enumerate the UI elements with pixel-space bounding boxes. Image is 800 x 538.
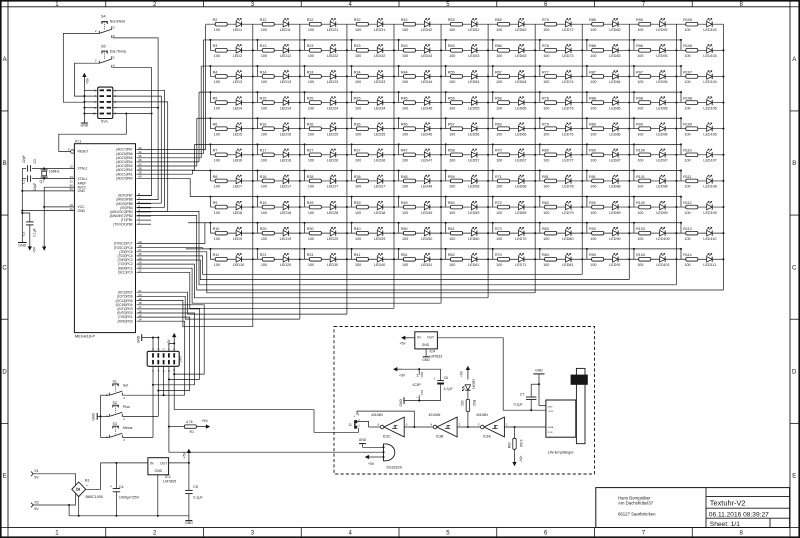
supply +5V down arrow C2 bbox=[29, 225, 31, 248]
svg-text:LED3: LED3 bbox=[233, 80, 242, 84]
resistor R31 bbox=[309, 257, 321, 261]
resistor R57 bbox=[451, 127, 463, 131]
svg-text:R54: R54 bbox=[448, 44, 455, 48]
resistor R103 bbox=[639, 231, 651, 235]
wire LED column 11 bbox=[722, 24, 724, 290]
svg-text:LED21: LED21 bbox=[327, 28, 338, 32]
svg-text:LED39: LED39 bbox=[374, 237, 385, 241]
LED LED105 bbox=[707, 100, 713, 105]
LED LED61 bbox=[471, 257, 477, 262]
svg-text:LED96: LED96 bbox=[656, 132, 667, 136]
svg-text:R37: R37 bbox=[354, 149, 361, 153]
svg-text:R93: R93 bbox=[589, 227, 596, 231]
svg-text:Am Dachshübel37: Am Dachshübel37 bbox=[618, 500, 654, 505]
wire LED column 2 bbox=[299, 24, 301, 319]
svg-text:+: + bbox=[110, 484, 112, 488]
LED LED25 bbox=[330, 126, 336, 131]
wire LED41 to R52 bbox=[467, 390, 469, 399]
svg-text:LED84: LED84 bbox=[609, 80, 620, 84]
svg-text:R17: R17 bbox=[260, 149, 267, 153]
svg-text:100: 100 bbox=[449, 106, 455, 110]
resistor R80 bbox=[545, 153, 557, 157]
svg-text:R14: R14 bbox=[260, 70, 267, 74]
resistor R24 bbox=[309, 75, 321, 79]
svg-text:LED99: LED99 bbox=[656, 211, 667, 215]
svg-text:100: 100 bbox=[496, 54, 502, 58]
resistor R14 bbox=[262, 75, 274, 79]
svg-text:100: 100 bbox=[543, 54, 549, 58]
resistor R16 bbox=[262, 127, 274, 131]
svg-text:LED62: LED62 bbox=[515, 28, 526, 32]
wire bridge + out bbox=[86, 463, 148, 489]
svg-text:100: 100 bbox=[590, 132, 596, 136]
svg-text:LED75: LED75 bbox=[562, 106, 573, 110]
svg-text:LED26: LED26 bbox=[327, 159, 338, 163]
svg-text:Sheet: 1/1: Sheet: 1/1 bbox=[710, 521, 740, 528]
resistor R61 bbox=[451, 231, 463, 235]
svg-text:100: 100 bbox=[496, 132, 502, 136]
svg-text:IN: IN bbox=[150, 461, 154, 465]
svg-text:(SCL)PC0: (SCL)PC0 bbox=[118, 270, 133, 274]
svg-text:R101: R101 bbox=[636, 175, 645, 179]
wire row 6 line bbox=[210, 154, 723, 156]
LED LED71 bbox=[518, 257, 524, 262]
svg-text:LED42: LED42 bbox=[421, 28, 432, 32]
wire IC4 out bbox=[437, 338, 546, 410]
svg-text:+5V: +5V bbox=[460, 370, 464, 377]
resistor R111 bbox=[686, 179, 698, 183]
resistor R81 bbox=[545, 179, 557, 183]
svg-text:100: 100 bbox=[402, 211, 408, 215]
LED LED103 bbox=[707, 48, 713, 53]
svg-text:LED83: LED83 bbox=[609, 54, 620, 58]
svg-text:R61: R61 bbox=[448, 227, 455, 231]
svg-text:100: 100 bbox=[590, 28, 596, 32]
svg-text:4.7k: 4.7k bbox=[186, 420, 193, 424]
resistor R91 bbox=[592, 179, 604, 183]
svg-text:100: 100 bbox=[637, 106, 643, 110]
LED LED65 bbox=[518, 100, 524, 105]
svg-text:100: 100 bbox=[261, 159, 267, 163]
svg-text:LED44: LED44 bbox=[421, 80, 432, 84]
svg-text:100: 100 bbox=[496, 159, 502, 163]
svg-text:LED2: LED2 bbox=[233, 54, 242, 58]
svg-text:XTAL2: XTAL2 bbox=[78, 167, 88, 171]
resistor R71 bbox=[498, 179, 510, 183]
svg-text:LED14: LED14 bbox=[280, 106, 291, 110]
svg-text:100: 100 bbox=[496, 263, 502, 267]
wire S5 to PB7 bbox=[137, 114, 152, 196]
wire row 7 line bbox=[210, 180, 723, 182]
svg-text:GND: GND bbox=[422, 343, 430, 347]
resistor R110 bbox=[686, 153, 698, 157]
resistor R95 bbox=[639, 22, 651, 26]
resistor R104 bbox=[639, 257, 651, 261]
resistor R33 bbox=[356, 49, 368, 53]
svg-text:100: 100 bbox=[590, 159, 596, 163]
wire PD pins to SV3 nest bbox=[137, 305, 205, 374]
svg-text:LED77: LED77 bbox=[562, 159, 573, 163]
LED LED48 bbox=[424, 178, 430, 183]
supply +5V down arrow VCC bbox=[43, 240, 45, 248]
svg-text:100: 100 bbox=[214, 106, 220, 110]
svg-text:LED110: LED110 bbox=[703, 237, 716, 241]
wire 1-wire net bbox=[168, 366, 170, 452]
IC IC4 LM7833 bbox=[415, 332, 438, 349]
svg-text:LED12: LED12 bbox=[280, 54, 291, 58]
wire LED column 4 bbox=[393, 24, 395, 308]
svg-text:R76: R76 bbox=[542, 44, 549, 48]
ground GND power bbox=[188, 516, 190, 521]
svg-text:LED60: LED60 bbox=[468, 237, 479, 241]
svg-text:R88: R88 bbox=[589, 96, 596, 100]
svg-text:R21: R21 bbox=[260, 253, 267, 257]
svg-text:GND: GND bbox=[155, 469, 163, 473]
svg-text:06.11.2016 08:39:27: 06.11.2016 08:39:27 bbox=[709, 511, 769, 518]
svg-text:LED36: LED36 bbox=[374, 159, 385, 163]
svg-text:R41: R41 bbox=[354, 253, 361, 257]
resistor R93 bbox=[592, 231, 604, 235]
LED LED27 bbox=[330, 178, 336, 183]
resistor R42 bbox=[403, 22, 415, 26]
svg-text:C: C bbox=[792, 265, 797, 271]
capacitor C5 0.1µF bbox=[188, 463, 190, 491]
svg-text:VSS: VSS bbox=[420, 390, 424, 396]
LED LED56 bbox=[471, 126, 477, 131]
wire SV1 left pins bbox=[84, 89, 97, 91]
svg-text:LED38: LED38 bbox=[374, 211, 385, 215]
svg-text:R109: R109 bbox=[683, 123, 692, 127]
svg-text:100: 100 bbox=[496, 80, 502, 84]
svg-text:GND: GND bbox=[18, 244, 26, 248]
bridge rectifier B1 B80C1000 bbox=[72, 482, 86, 497]
LED LED74 bbox=[566, 74, 572, 79]
svg-text:LED54: LED54 bbox=[468, 80, 479, 84]
LED LED95 bbox=[660, 100, 666, 105]
LED LED3 bbox=[236, 74, 242, 79]
svg-text:R104: R104 bbox=[636, 253, 645, 257]
LED LED9 bbox=[236, 230, 242, 235]
svg-text:E: E bbox=[3, 474, 7, 480]
wire row 2 line bbox=[210, 49, 723, 51]
svg-text:IC1: IC1 bbox=[75, 138, 82, 143]
svg-text:+: + bbox=[433, 377, 435, 381]
supply +5V arrow R1 bbox=[196, 426, 207, 428]
resistor R90 bbox=[592, 153, 604, 157]
svg-text:100: 100 bbox=[214, 54, 220, 58]
svg-text:LED72: LED72 bbox=[562, 28, 573, 32]
resistor R37 bbox=[356, 153, 368, 157]
svg-text:R62: R62 bbox=[448, 253, 455, 257]
svg-text:R83: R83 bbox=[542, 227, 549, 231]
resistor R72 bbox=[498, 205, 510, 209]
LED LED13 bbox=[283, 74, 289, 79]
svg-text:DATA: DATA bbox=[548, 426, 554, 429]
svg-text:LED67: LED67 bbox=[515, 159, 526, 163]
resistor R78 bbox=[545, 101, 557, 105]
svg-text:S2: S2 bbox=[113, 401, 117, 405]
svg-text:100: 100 bbox=[402, 237, 408, 241]
svg-text:100: 100 bbox=[543, 263, 549, 267]
svg-text:LED107: LED107 bbox=[703, 159, 716, 163]
resistor R32 bbox=[356, 22, 368, 26]
LED LED14 bbox=[283, 100, 289, 105]
resistor R9 bbox=[215, 205, 227, 209]
wire J1 pin2 bbox=[357, 421, 369, 427]
LED LED52 bbox=[471, 22, 477, 27]
svg-text:Set: Set bbox=[123, 384, 128, 388]
ground GND IC3P bbox=[403, 397, 405, 404]
svg-text:12: 12 bbox=[69, 165, 73, 169]
resistor R3 bbox=[215, 49, 227, 53]
wire S4 to PB6 bbox=[137, 108, 159, 200]
svg-text:R10: R10 bbox=[213, 227, 220, 231]
svg-text:LED46: LED46 bbox=[421, 132, 432, 136]
svg-text:100: 100 bbox=[261, 237, 267, 241]
svg-text:100: 100 bbox=[355, 54, 361, 58]
wire row 8 line bbox=[210, 206, 723, 208]
svg-text:LED66: LED66 bbox=[515, 132, 526, 136]
svg-text:R59: R59 bbox=[448, 175, 455, 179]
IC IC1 MEGA16-P bbox=[74, 144, 135, 333]
svg-text:100: 100 bbox=[214, 159, 220, 163]
svg-text:LED1: LED1 bbox=[233, 28, 242, 32]
svg-text:IC3A: IC3A bbox=[483, 435, 491, 439]
wire S4 throw bbox=[113, 38, 159, 108]
resistor R97 bbox=[639, 75, 651, 79]
svg-text:R74: R74 bbox=[495, 253, 502, 257]
LED LED30 bbox=[330, 257, 336, 262]
svg-text:R6: R6 bbox=[213, 123, 218, 127]
wire S5 throw bbox=[113, 68, 152, 114]
LED LED77 bbox=[566, 152, 572, 157]
svg-text:R107: R107 bbox=[683, 70, 692, 74]
wire column 2 feed bbox=[137, 296, 300, 319]
svg-text:LED27: LED27 bbox=[327, 185, 338, 189]
resistor R51 bbox=[403, 257, 415, 261]
LED LED5 bbox=[236, 126, 242, 131]
svg-text:R38: R38 bbox=[354, 175, 361, 179]
svg-text:R73: R73 bbox=[495, 227, 502, 231]
svg-text:100: 100 bbox=[261, 80, 267, 84]
svg-text:OUT: OUT bbox=[427, 336, 434, 340]
LED LED43 bbox=[424, 48, 430, 53]
svg-text:LED91: LED91 bbox=[609, 263, 620, 267]
svg-text:LED24: LED24 bbox=[327, 106, 338, 110]
LED LED53 bbox=[471, 48, 477, 53]
wire row bus 6 bbox=[195, 143, 681, 145]
svg-text:C6: C6 bbox=[444, 376, 449, 380]
LED LED91 bbox=[613, 257, 619, 262]
svg-text:Minus: Minus bbox=[123, 426, 133, 430]
svg-text:Dat./Temp.: Dat./Temp. bbox=[110, 49, 127, 53]
resistor R28 bbox=[309, 179, 321, 183]
svg-text:R75: R75 bbox=[542, 18, 549, 22]
resistor R74 bbox=[498, 257, 510, 261]
LED LED42 bbox=[424, 22, 430, 27]
svg-text:100: 100 bbox=[637, 54, 643, 58]
svg-text:R79: R79 bbox=[542, 123, 549, 127]
svg-text:100: 100 bbox=[261, 211, 267, 215]
svg-text:X2: X2 bbox=[34, 500, 39, 504]
wire column 5 feed bbox=[137, 268, 441, 303]
svg-text:R110: R110 bbox=[683, 149, 692, 153]
svg-text:R4: R4 bbox=[213, 70, 218, 74]
wire X2 to bridge bbox=[33, 504, 69, 506]
wire LED column 10 bbox=[675, 24, 677, 285]
LED LED58 bbox=[471, 178, 477, 183]
svg-text:S3: S3 bbox=[113, 422, 117, 426]
wire S1 net bbox=[122, 394, 184, 396]
LED LED90 bbox=[613, 230, 619, 235]
svg-text:100: 100 bbox=[496, 106, 502, 110]
supply +5V arrow IC2 bbox=[188, 452, 190, 463]
svg-text:R33: R33 bbox=[354, 44, 361, 48]
temperature sensor DS18S20 bbox=[384, 444, 395, 461]
resistor R15 bbox=[262, 101, 274, 105]
svg-text:LED105: LED105 bbox=[703, 106, 716, 110]
svg-text:9V: 9V bbox=[34, 476, 39, 480]
ground GND SV1 bbox=[83, 119, 85, 124]
svg-text:LED81: LED81 bbox=[562, 263, 573, 267]
resistor R94 bbox=[592, 257, 604, 261]
LED LED60 bbox=[471, 230, 477, 235]
wire bridge - out bbox=[78, 497, 80, 516]
svg-text:100: 100 bbox=[449, 80, 455, 84]
svg-text:R1: R1 bbox=[190, 430, 195, 434]
svg-text:100: 100 bbox=[402, 28, 408, 32]
title block bbox=[596, 488, 790, 528]
svg-text:100: 100 bbox=[684, 263, 690, 267]
LED LED94 bbox=[660, 74, 666, 79]
LED LED104 bbox=[707, 74, 713, 79]
wire XTAL1 net bbox=[32, 178, 74, 180]
svg-text:100: 100 bbox=[449, 28, 455, 32]
wire row bus 9 feed bbox=[204, 223, 206, 244]
svg-text:22pF: 22pF bbox=[33, 183, 37, 191]
wire SV3 pin1 GND bbox=[152, 338, 154, 352]
resistor R55 bbox=[451, 75, 463, 79]
svg-text:100: 100 bbox=[214, 132, 220, 136]
svg-text:100: 100 bbox=[402, 54, 408, 58]
resistor R21 bbox=[262, 257, 274, 261]
svg-text:R99: R99 bbox=[636, 123, 643, 127]
svg-text:R11: R11 bbox=[213, 253, 220, 257]
wire column 8 feed bbox=[137, 256, 583, 274]
svg-text:R42: R42 bbox=[401, 18, 408, 22]
resistor R52 330 bbox=[466, 399, 470, 411]
svg-text:LED71: LED71 bbox=[515, 263, 526, 267]
svg-text:(RXD)PD0: (RXD)PD0 bbox=[118, 319, 133, 323]
svg-text:LED31: LED31 bbox=[374, 28, 385, 32]
svg-text:R52: R52 bbox=[472, 400, 476, 406]
svg-text:S1: S1 bbox=[113, 380, 117, 384]
svg-text:LED88: LED88 bbox=[609, 185, 620, 189]
svg-text:LED10: LED10 bbox=[233, 263, 244, 267]
resistor R18 bbox=[262, 179, 274, 183]
LED LED17 bbox=[283, 178, 289, 183]
wire column 11 feed bbox=[137, 216, 724, 291]
LED LED39 bbox=[377, 230, 383, 235]
svg-text:100: 100 bbox=[449, 159, 455, 163]
resistor R13 bbox=[262, 49, 274, 53]
svg-text:S5: S5 bbox=[101, 44, 106, 48]
IC IC2 LM7805 bbox=[148, 458, 169, 475]
svg-text:R53: R53 bbox=[448, 18, 455, 22]
svg-text:100: 100 bbox=[637, 237, 643, 241]
svg-text:LED102: LED102 bbox=[703, 28, 716, 32]
resistor R102 bbox=[639, 205, 651, 209]
svg-text:LED100: LED100 bbox=[656, 237, 669, 241]
svg-text:R44: R44 bbox=[401, 70, 408, 74]
svg-text:X1: X1 bbox=[34, 469, 39, 473]
LED LED107 bbox=[707, 152, 713, 157]
supply +5V arrow SV1 bbox=[83, 76, 85, 84]
svg-text:R57: R57 bbox=[448, 123, 455, 127]
svg-text:100: 100 bbox=[355, 132, 361, 136]
LED LED21 bbox=[330, 22, 336, 27]
LED LED69 bbox=[518, 204, 524, 209]
svg-text:R65: R65 bbox=[495, 18, 502, 22]
svg-text:100: 100 bbox=[355, 28, 361, 32]
LED LED108 bbox=[707, 178, 713, 183]
svg-text:16MHz: 16MHz bbox=[49, 170, 60, 174]
svg-text:100: 100 bbox=[637, 263, 643, 267]
svg-text:LED90: LED90 bbox=[609, 237, 620, 241]
LED LED110 bbox=[707, 230, 713, 235]
svg-text:R78: R78 bbox=[542, 96, 549, 100]
svg-text:100: 100 bbox=[449, 54, 455, 58]
wire SV1 pin5 net bbox=[113, 102, 168, 211]
svg-text:40: 40 bbox=[138, 175, 142, 179]
LED LED87 bbox=[613, 152, 619, 157]
wire S3 net bbox=[122, 436, 153, 438]
LED LED78 bbox=[566, 178, 572, 183]
svg-text:C2: C2 bbox=[22, 232, 26, 236]
supply +5V arrow SV3 bbox=[173, 345, 175, 352]
LED LED85 bbox=[613, 100, 619, 105]
svg-text:R51: R51 bbox=[401, 253, 408, 257]
svg-text:+5V: +5V bbox=[519, 456, 523, 463]
svg-text:+5V: +5V bbox=[400, 342, 407, 346]
resistor R45 bbox=[403, 101, 415, 105]
svg-text:100: 100 bbox=[543, 185, 549, 189]
ground GND left bbox=[18, 242, 27, 244]
resistor R113 bbox=[686, 231, 698, 235]
svg-text:IC3B: IC3B bbox=[436, 435, 444, 439]
resistor R36 bbox=[356, 127, 368, 131]
svg-text:+5V: +5V bbox=[86, 77, 90, 84]
LED LED96 bbox=[660, 126, 666, 131]
svg-text:R28: R28 bbox=[307, 175, 314, 179]
resistor R79 bbox=[545, 127, 557, 131]
svg-text:+5V: +5V bbox=[368, 462, 375, 466]
LED LED31 bbox=[377, 22, 383, 27]
resistor R65 bbox=[498, 22, 510, 26]
connector SV3 bbox=[147, 351, 179, 366]
svg-text:100: 100 bbox=[684, 132, 690, 136]
resistor R17 bbox=[262, 153, 274, 157]
svg-text:100: 100 bbox=[355, 80, 361, 84]
svg-text:LED64: LED64 bbox=[515, 80, 526, 84]
svg-text:R67: R67 bbox=[495, 70, 502, 74]
wire column 10 feed bbox=[137, 211, 677, 284]
wire AVCC VCC net bbox=[44, 186, 74, 188]
LED LED64 bbox=[518, 74, 524, 79]
LED LED46 bbox=[424, 126, 430, 131]
svg-text:R102: R102 bbox=[636, 201, 645, 205]
resistor R62 bbox=[451, 257, 463, 261]
